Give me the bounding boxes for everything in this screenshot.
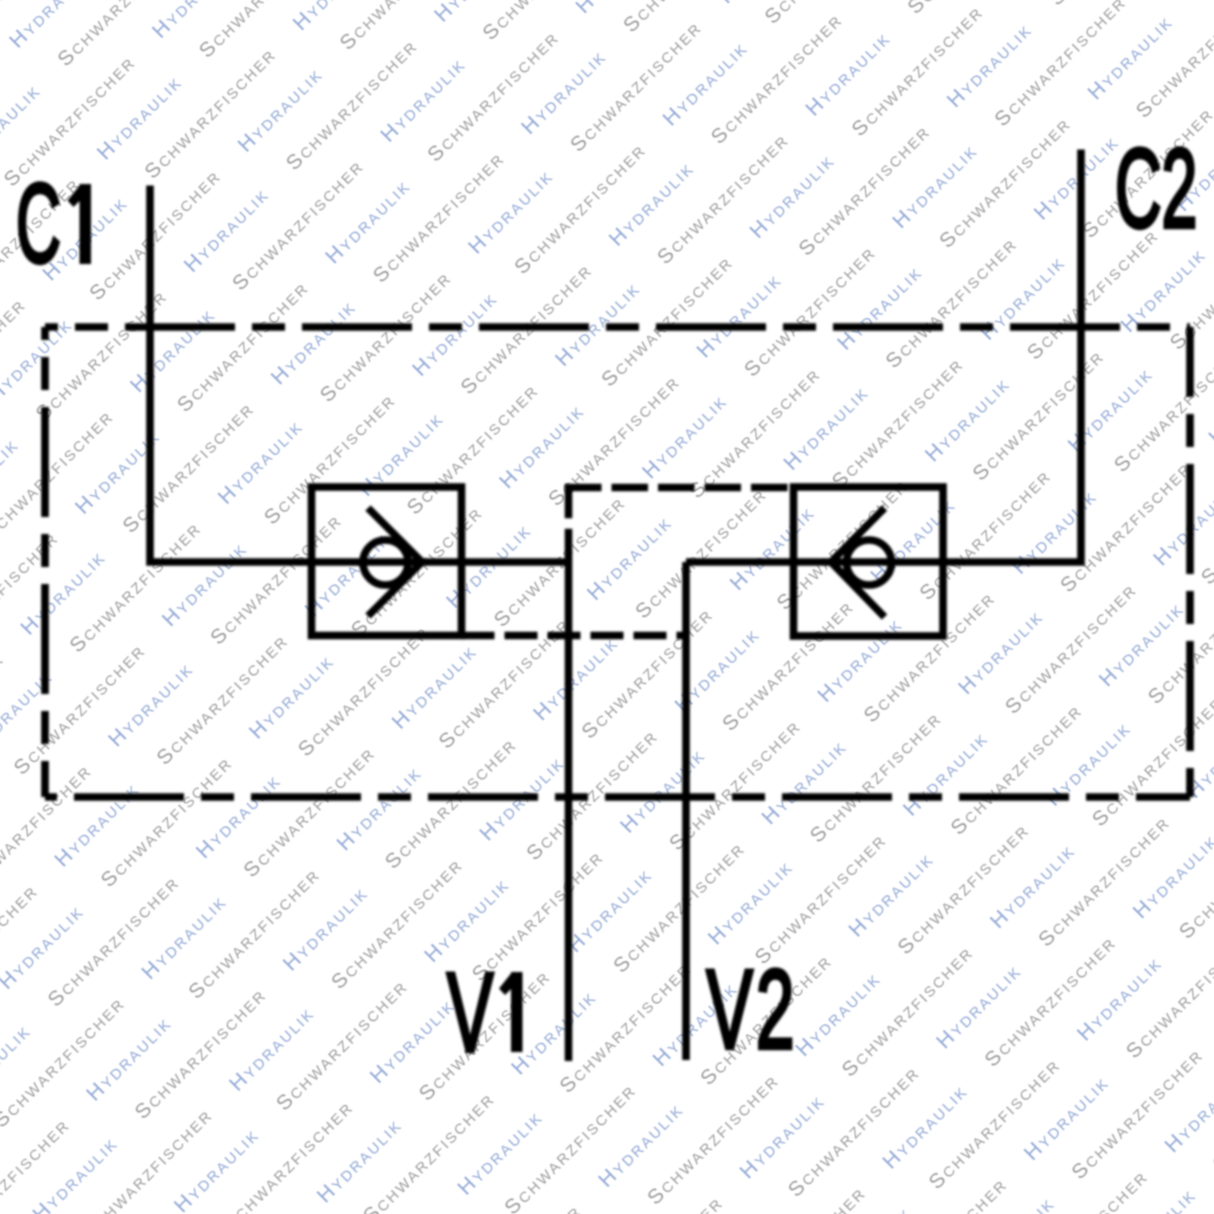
svg-text:C: C [16,162,61,287]
wire C1 vertical and elbow to valve U1 [150,186,315,563]
svg-text:V: V [447,950,493,1075]
svg-text:V2: V2 [707,947,798,1072]
pilot line dashed horizontal to valve U2 [565,484,794,492]
enclosure dashed border bottom [45,793,1190,801]
wire flow line through check valve U1 [311,558,569,566]
check valve U1 box [312,487,462,636]
pilot line dashed vertical at node V1 top [565,484,573,562]
pilot line dashed from valve U1 to V2 [462,632,687,640]
enclosure dashed border left [41,327,49,797]
svg-text:C2: C2 [1115,126,1197,251]
wire V2 vertical [682,562,690,1060]
enclosure dashed border top [45,323,1190,331]
check valve U1 ball [363,540,408,585]
wire V2 elbow to valve U2 [686,558,794,566]
wire V1 vertical [565,562,573,1061]
enclosure dashed border right [1186,327,1194,797]
wire flow line through check valve U2 [794,558,944,566]
wire to C2 and C2 vertical [943,150,1081,563]
check valve U2 seat [831,508,885,617]
check valve U1 seat [368,508,422,616]
check valve U2 box [794,487,944,636]
check valve U2 ball [847,540,892,585]
